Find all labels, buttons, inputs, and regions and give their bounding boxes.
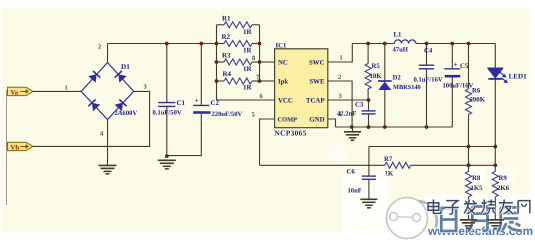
label 1R (R3): [243, 65, 253, 73]
junction C5 top: [450, 42, 454, 46]
ground redraw (R9): [487, 220, 504, 229]
label D1: [121, 63, 130, 71]
label R8: [472, 175, 481, 182]
op-amp/regulator IC1 NCP3065 body: [275, 49, 328, 128]
svg-text:2A600V: 2A600V: [115, 110, 138, 117]
resistor R9: [492, 165, 498, 220]
junction right bus R3/pin8: [258, 60, 262, 64]
ground (C1 C2): [158, 160, 176, 169]
label C1: [177, 99, 186, 107]
pin number 3 (bridge): [144, 83, 148, 90]
svg-text:L1: L1: [394, 32, 403, 39]
label R2: [222, 33, 231, 41]
label 200K: [470, 96, 486, 103]
wire pin4 GND: [328, 119, 336, 127]
svg-text:2K6: 2K6: [497, 185, 510, 192]
watermark text row1 (dian zi fa shao you): [428, 200, 530, 215]
pin number 2: [338, 74, 341, 81]
pin number 8: [252, 55, 256, 62]
svg-text:1R: 1R: [243, 28, 253, 36]
label R1: [222, 14, 231, 22]
junction pin3 node: [367, 98, 371, 102]
pin number 4: [338, 112, 342, 119]
pin name GND: [309, 116, 324, 123]
svg-text:1R: 1R: [243, 46, 253, 54]
label C2: [211, 99, 220, 107]
wire gnd bus: [336, 126, 453, 128]
capacitor C4: [419, 44, 434, 128]
resistor R3: [217, 59, 260, 65]
svg-text:10K: 10K: [370, 73, 383, 80]
svg-text:GND: GND: [309, 116, 324, 123]
svg-text:R7: R7: [384, 156, 393, 163]
wire R6-R8 column link: [468, 147, 470, 166]
label R9: [499, 175, 508, 182]
pin number 6: [260, 93, 264, 100]
label R3: [222, 52, 231, 60]
svg-text:1: 1: [65, 84, 68, 91]
wire bridge pin2 to +rail: [107, 44, 109, 63]
label 0.1uF/50V: [153, 109, 182, 116]
svg-text:R3: R3: [222, 52, 231, 60]
ground redraw (R8): [460, 220, 477, 229]
label C4: [424, 47, 433, 54]
LED D-LED1: [488, 44, 508, 166]
svg-text:1K5: 1K5: [471, 185, 484, 192]
watermark text row2 (ri yue chen): [441, 207, 521, 232]
label C6: [347, 168, 356, 175]
label D2: [393, 75, 402, 82]
capacitor C5: [444, 44, 460, 128]
svg-text:SWE: SWE: [309, 79, 325, 86]
svg-text:D1: D1: [121, 63, 130, 71]
pin number 7: [256, 74, 260, 81]
svg-text:MBRS140: MBRS140: [393, 84, 421, 91]
label R7: [384, 156, 393, 163]
label 1R (R1): [243, 28, 253, 36]
svg-text:200K: 200K: [470, 96, 486, 103]
svg-text:C5: C5: [460, 63, 469, 70]
inductor L1: [394, 40, 416, 44]
svg-text:D2: D2: [393, 75, 402, 82]
junction D2 bottom: [383, 125, 387, 129]
svg-text:R1: R1: [222, 14, 231, 22]
label R4: [223, 70, 232, 78]
watermark logo circles: [387, 198, 437, 239]
svg-text:IC1: IC1: [276, 42, 288, 49]
resistor R7: [385, 162, 411, 168]
svg-text:TCAP: TCAP: [306, 98, 325, 105]
svg-text:R8: R8: [472, 175, 481, 182]
watermark white glow blobs: [330, 146, 535, 243]
pin name COMP: [278, 116, 298, 123]
label 10nF: [348, 187, 362, 194]
svg-text:NCP3065: NCP3065: [275, 129, 307, 138]
label IC1: [276, 42, 288, 49]
label 1R (R2): [243, 46, 253, 54]
svg-text:R6: R6: [472, 88, 481, 95]
junction R5 top: [366, 42, 370, 46]
junction left bus R3: [215, 60, 219, 64]
junction C3 bottom: [367, 125, 371, 129]
capacitor C6: [362, 147, 376, 200]
svg-text:NC: NC: [278, 60, 288, 67]
svg-text:R9: R9: [499, 175, 508, 182]
pin number 4 (bridge): [100, 131, 104, 138]
ground (bridge): [99, 165, 117, 174]
left bus of R bank: [216, 25, 218, 100]
svg-text:10nF: 10nF: [348, 187, 362, 194]
capacitor C2: [167, 44, 211, 156]
pin name VCC: [278, 98, 293, 105]
svg-text:1: 1: [340, 55, 343, 62]
svg-text:VCC: VCC: [278, 98, 293, 105]
wire switch rail: [352, 43, 495, 45]
svg-text:+: +: [454, 60, 458, 69]
label 10K: [370, 73, 383, 80]
resistor R6: [466, 44, 472, 147]
label C2 plus: [195, 96, 199, 105]
label 2K6 (R9): [497, 185, 510, 192]
pin name SWE: [309, 79, 325, 86]
wire + rail: [108, 43, 217, 45]
svg-text:C4: C4: [424, 47, 433, 54]
svg-text:2: 2: [98, 44, 101, 51]
ground (R9): [487, 220, 504, 229]
junction right bus R4/pin7: [258, 79, 262, 83]
pin number 2 (bridge): [98, 44, 101, 51]
pin name TCAP: [306, 98, 325, 105]
pin name SWC: [309, 60, 325, 67]
resistor R4: [217, 78, 260, 84]
port Vb: [8, 142, 34, 151]
bridge rectifier D1: [81, 63, 134, 120]
svg-text:C3: C3: [355, 102, 364, 109]
junction C1 top: [165, 42, 169, 46]
junction LED column mid: [493, 145, 497, 149]
pin number 3: [339, 93, 343, 100]
junction R6 top: [467, 42, 471, 46]
label 1K (R7): [385, 170, 394, 177]
svg-text:0.1uF/50V: 0.1uF/50V: [153, 109, 182, 116]
wire pin3 TCAP: [328, 99, 369, 101]
svg-text:42.2nF: 42.2nF: [337, 110, 356, 117]
wire pin7 stub: [260, 80, 275, 82]
ground (C6): [360, 199, 377, 208]
pin name NC: [278, 60, 288, 67]
svg-text:1R: 1R: [243, 65, 253, 73]
label 0.1uF/16V: [414, 76, 443, 83]
resistor R2: [217, 41, 260, 47]
junction R8 top: [467, 163, 471, 167]
pin number 1 (bridge): [65, 84, 68, 91]
ground (gnd bus): [344, 127, 361, 140]
svg-text:Ipk: Ipk: [278, 79, 288, 86]
resistor R1: [217, 22, 260, 28]
wire pin2 SWE down to gnd bus: [328, 81, 352, 127]
label 1R (R4): [243, 84, 253, 92]
junction right bus R2: [258, 42, 262, 46]
junction rail/left bus: [215, 42, 219, 46]
diode D2: [378, 44, 392, 128]
svg-text:R4: R4: [223, 70, 232, 78]
label 100uF/16V: [443, 82, 474, 89]
label MBRS140: [393, 84, 421, 91]
junction pin2/gnd-symbol: [350, 125, 354, 129]
label C5 plus: [454, 60, 458, 69]
junction C2 top: [199, 42, 203, 46]
pin name Ipk: [278, 79, 288, 86]
svg-text:Va: Va: [11, 89, 19, 96]
ground (R8): [460, 220, 477, 229]
svg-text:1R: 1R: [243, 84, 253, 92]
label LED1: [509, 73, 528, 81]
right bus of R bank: [259, 25, 261, 81]
svg-text:47uH: 47uH: [393, 47, 409, 54]
junction C4 bottom: [425, 125, 429, 129]
wire pin8 stub: [260, 61, 275, 63]
label C5: [460, 63, 469, 70]
svg-text:Vb: Vb: [11, 144, 20, 151]
label 2A600V: [115, 110, 138, 117]
label 1K5 (R8): [471, 185, 484, 192]
capacitor C3: [362, 100, 376, 127]
label 220uF/50V: [212, 111, 243, 118]
svg-text:C6: C6: [347, 168, 356, 175]
pin number 1: [340, 55, 343, 62]
svg-text:LED1: LED1: [509, 73, 528, 81]
wire pin1 SWC to rail: [328, 44, 353, 63]
label 47uH: [393, 47, 409, 54]
watermark url www.elecfans.com: [427, 224, 533, 238]
resistor R8: [466, 165, 472, 220]
svg-text:0.1uF/16V: 0.1uF/16V: [414, 76, 443, 83]
svg-text:220uF/50V: 220uF/50V: [212, 111, 243, 118]
svg-text:R5: R5: [372, 63, 381, 70]
capacitor C1: [158, 44, 175, 157]
junction C1 bottom: [165, 154, 169, 158]
sheet border line: [6, 90, 8, 205]
svg-text:SWC: SWC: [309, 60, 325, 67]
svg-text:COMP: COMP: [278, 116, 298, 123]
svg-text:+: +: [195, 96, 199, 105]
port Va: [8, 87, 34, 96]
svg-text:C1: C1: [177, 99, 186, 107]
label R6: [472, 88, 481, 95]
resistor R5: [365, 44, 371, 101]
svg-text:R2: R2: [222, 33, 231, 41]
junction left bus R4: [215, 79, 219, 83]
label R5: [372, 63, 381, 70]
wire comp line R7: [260, 164, 496, 166]
wire Vb to bridge pin3 (L route): [33, 91, 150, 146]
wire bridge pin4 down: [107, 120, 109, 166]
pin number 5: [252, 112, 256, 119]
junction R6 bottom: [467, 145, 471, 149]
svg-text:2: 2: [338, 74, 341, 81]
wire feedback upper (C6-R6-LED): [369, 146, 495, 148]
junction R9 top: [493, 163, 497, 167]
label L1: [394, 32, 403, 39]
label NCP3065: [275, 129, 307, 138]
wire Va to bridge pin1: [33, 90, 81, 92]
label 42.2nF: [337, 110, 356, 117]
label C3: [355, 102, 364, 109]
junction D2 top: [383, 42, 387, 46]
junction C4 top: [425, 42, 429, 46]
wire pin6 VCC: [217, 99, 275, 101]
wire pin5 COMP loop: [260, 119, 275, 165]
